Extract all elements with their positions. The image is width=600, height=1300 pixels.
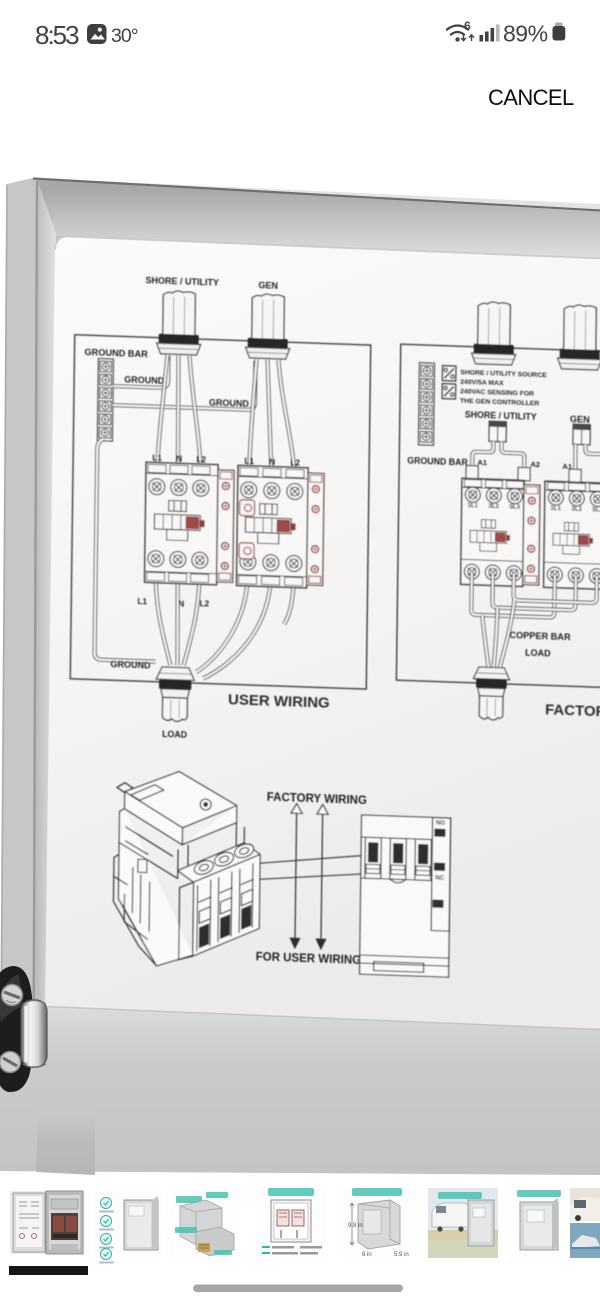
svg-text:L2: L2 [199, 599, 209, 608]
gen sensing connector X2 [573, 424, 590, 445]
svg-text:LOAD: LOAD [162, 729, 187, 740]
svg-text:N: N [178, 599, 184, 608]
load cable gland (factory) [473, 667, 509, 680]
leader lines [258, 844, 431, 885]
svg-text:5L3: 5L3 [509, 504, 520, 511]
gen cable gland (factory) [564, 305, 597, 352]
terminal front view [360, 815, 451, 977]
factory wiring enclosure box [396, 344, 600, 688]
contactor K3 (factory) [461, 478, 524, 586]
contactor K2 [237, 466, 309, 588]
svg-text:N: N [176, 454, 182, 463]
svg-text:GROUND: GROUND [110, 659, 151, 670]
svg-text:NO: NO [436, 821, 445, 827]
svg-text:L1: L1 [244, 457, 254, 466]
notes text block [460, 369, 547, 408]
enclosure door photo [0, 178, 600, 1175]
surge protector F2 [442, 384, 456, 399]
svg-text:8:53: 8:53 [35, 20, 79, 50]
wire X2 to K3R A1 [573, 444, 577, 481]
callout vertical lines [295, 813, 323, 938]
svg-text:L1: L1 [137, 597, 147, 606]
door hinge [0, 966, 47, 1092]
selected indicator bar [9, 1266, 88, 1275]
svg-text:LOAD: LOAD [525, 648, 551, 659]
svg-text:6: 6 [464, 19, 471, 33]
wire ground to shore gland [113, 354, 168, 388]
svg-text:A1: A1 [477, 458, 487, 467]
shore sensing connector X1 [489, 421, 506, 442]
NC terminal [434, 863, 445, 871]
wires shore gland to contactor K1 [157, 355, 168, 482]
contactor K4 (factory) [544, 481, 600, 589]
svg-text:89%: 89% [503, 21, 548, 47]
svg-text:NC: NC [435, 876, 444, 882]
svg-text:30°: 30° [111, 25, 138, 47]
status bar [35, 19, 565, 50]
svg-text:9.8 in: 9.8 in [348, 1223, 363, 1229]
shading below label [0, 1007, 600, 1176]
wire X2 right [585, 445, 600, 483]
isometric contactor drawing [113, 769, 262, 969]
svg-text:3L2: 3L2 [488, 503, 499, 510]
wire X1 to A1 [472, 441, 493, 479]
svg-text:6 in: 6 in [362, 1252, 372, 1258]
gen cable gland [252, 294, 285, 341]
wires contactors to load gland [154, 572, 171, 666]
ground bar (left) [97, 359, 113, 442]
contactor K1 [145, 462, 219, 585]
shore cable gland (factory) [478, 302, 511, 347]
svg-text:A2: A2 [530, 460, 540, 469]
up arrows [291, 804, 328, 815]
contactor K1 aux block [217, 470, 234, 583]
svg-text:GEN: GEN [570, 414, 590, 425]
coil terminal stubs [466, 465, 478, 478]
wire ground to gen gland [113, 356, 256, 410]
svg-text:L2: L2 [290, 458, 300, 467]
load cable gland (user) [156, 667, 194, 681]
svg-text:GEN: GEN [258, 280, 278, 291]
svg-text:GROUND BAR: GROUND BAR [407, 455, 468, 467]
thumbnail strip [10, 1188, 600, 1264]
wires gen gland to contactor K2 [249, 359, 257, 485]
terminal slot [390, 838, 407, 880]
ground bar (right) [418, 363, 434, 446]
terminal slot [365, 837, 382, 879]
page scrollbar [193, 1285, 403, 1293]
svg-text:1L1: 1L1 [550, 505, 561, 512]
svg-text:L1: L1 [152, 454, 162, 463]
wire ground bus to load [95, 439, 159, 662]
contactor K2 aux block [307, 473, 324, 586]
user wiring enclosure box [70, 335, 370, 689]
svg-text:N: N [269, 458, 275, 467]
shore/utility cable gland [163, 291, 196, 337]
surge protector F1 [442, 366, 456, 381]
svg-text:L2: L2 [196, 455, 206, 464]
white wiring-diagram label [45, 237, 600, 1030]
terminal slot [415, 839, 432, 881]
wires copper bar to load gland [482, 615, 490, 668]
down arrows [289, 938, 326, 951]
link modules between K1 and K2 [239, 500, 254, 517]
svg-text:GROUND: GROUND [124, 374, 165, 385]
svg-text:CANCEL: CANCEL [488, 85, 574, 110]
svg-text:5.9 in: 5.9 in [394, 1252, 409, 1258]
svg-text:GROUND: GROUND [209, 397, 250, 408]
wire X1 to A2 [501, 442, 524, 480]
svg-text:USER WIRING: USER WIRING [228, 691, 330, 712]
svg-text:3L2: 3L2 [571, 506, 582, 513]
svg-text:1L1: 1L1 [467, 502, 478, 509]
copper bar links [471, 572, 555, 618]
contactor K3 aux block [523, 485, 540, 586]
svg-text:5L3: 5L3 [592, 506, 600, 513]
